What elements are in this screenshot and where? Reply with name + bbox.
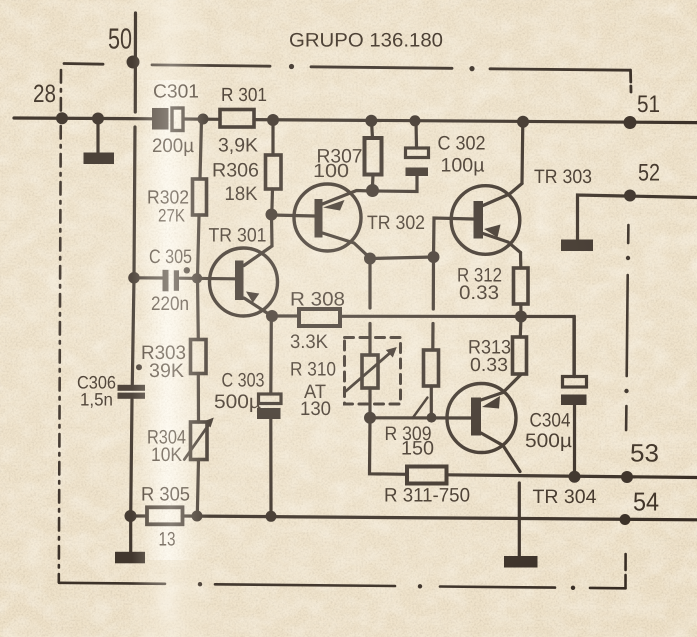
node junction rail x371 [365, 115, 377, 127]
capacitor C306 (in series on 50-line) [118, 385, 146, 399]
node junction (271,516) C303 bottom [266, 511, 277, 522]
capacitor C305 (plates) [163, 270, 180, 292]
thermistor R310 column (from row258 down, hops row316) [346, 259, 397, 418]
svg-text:C 303: C 303 [222, 370, 265, 392]
dashed box around R310 [345, 338, 401, 405]
svg-text:3.3K: 3.3K [290, 331, 328, 353]
svg-text:100µ: 100µ [441, 155, 485, 177]
capacitor C303 (electrolytic) [257, 321, 281, 516]
svg-text:200µ: 200µ [152, 135, 194, 157]
resistor R308 (box) [299, 309, 340, 326]
transistor TR304 [447, 375, 521, 472]
node: dot where 50-line crosses top border [127, 56, 140, 69]
border: top-right corner stub [629, 70, 632, 92]
svg-text:R 301: R 301 [221, 85, 267, 106]
ground (top-left, below rail) [84, 118, 115, 164]
resistor R311 (box) [407, 467, 447, 484]
resistor R302 (vertical) [193, 119, 207, 278]
node junction (272,316) TR301 emitter / C303 [266, 310, 278, 322]
transistor TR303 [451, 184, 522, 255]
node junction on rail at border x62 [56, 112, 68, 124]
svg-text:100: 100 [313, 161, 349, 182]
svg-text:R306: R306 [212, 160, 259, 182]
node junction (370,417.5) [364, 412, 376, 424]
node junction (372.5,190.5) R307/C302/TR302 emitter [366, 184, 379, 197]
svg-text:13: 13 [159, 529, 176, 551]
resistor R312 (vertical) [514, 253, 529, 317]
resistor R304 (trimmer, vertical with arrow) [184, 374, 214, 516]
node junction on rail x98 (ground tap) [92, 113, 104, 125]
wire 52 with corner and ground [561, 195, 697, 251]
svg-text:220n: 220n [151, 293, 189, 315]
svg-text:GRUPO 136.180: GRUPO 136.180 [289, 30, 443, 52]
border: right dash-dot [624, 225, 630, 588]
wire: TR303 collector riser to rail [520, 122, 524, 184]
svg-text:0.33: 0.33 [470, 355, 508, 376]
svg-text:130: 130 [300, 398, 331, 420]
wire: emitter row y316 (R308 row) [272, 316, 574, 377]
node junction rail x273 [267, 114, 279, 126]
resistor R306 (vertical) [266, 120, 282, 215]
svg-text:C301: C301 [153, 82, 199, 103]
polarity bullet near C305 [184, 267, 190, 273]
node junction (521,316.5) R312 bottom [515, 311, 527, 323]
wire 54 / R305 row [136, 516, 697, 520]
svg-text:51: 51 [637, 91, 660, 118]
svg-text:TR 304: TR 304 [533, 486, 597, 508]
svg-text:R 311-750: R 311-750 [384, 485, 470, 507]
node junction (370,258.5) TR302 collector [364, 253, 376, 265]
svg-text:R 308: R 308 [290, 289, 345, 311]
svg-text:3,9K: 3,9K [218, 135, 258, 157]
node junction (197,278.3) [192, 273, 202, 283]
svg-text:TR 302: TR 302 [367, 212, 425, 234]
border: bottom dash-dot [59, 582, 626, 590]
svg-text:C 305: C 305 [149, 246, 192, 268]
node junction (130.5,516) [125, 510, 137, 522]
pointer line for R309 label [413, 398, 428, 418]
wire: TR304 emitter ground stem [504, 483, 538, 568]
node junction rail x523 [517, 116, 529, 128]
resistor R303 (vertical) [191, 279, 207, 374]
wire: net 28/51 main horizontal rail [14, 118, 697, 123]
svg-text:150: 150 [401, 438, 434, 460]
bullet left of 39K [136, 364, 142, 370]
svg-text:50: 50 [108, 24, 132, 56]
svg-text:R 310: R 310 [290, 359, 336, 381]
node dot on 50-line at C305 row [128, 272, 140, 284]
capacitor C301 (plates) [152, 108, 183, 131]
svg-text:500µ: 500µ [525, 430, 572, 452]
svg-text:1,5n: 1,5n [80, 390, 113, 410]
svg-text:C304: C304 [530, 410, 571, 432]
svg-text:C 302: C 302 [438, 133, 486, 155]
node junction (433.5,257) [428, 251, 440, 263]
wire: TR303 base riser and base wire [434, 218, 474, 257]
svg-text:TR 301: TR 301 [209, 225, 267, 247]
node junction wire53 x627 (border) [621, 471, 633, 483]
wire: C305 row y278 [134, 278, 235, 279]
node junction wire54 x625 (border) [620, 514, 631, 525]
wire: row y258 between TR302 coll and TR303 base column [370, 257, 434, 259]
svg-text:18K: 18K [225, 183, 258, 205]
capacitor C302 (electrolytic) [377, 120, 429, 192]
svg-text:0.33: 0.33 [459, 282, 499, 304]
wire 53 row [370, 418, 697, 478]
node junction (431.5,417.5) [427, 413, 437, 423]
resistor R313 (vertical) [513, 317, 527, 375]
border: left dash-dot [59, 70, 61, 582]
resistor R301 (box on rail) [220, 110, 254, 128]
node junction rail x415 (C302 top) [410, 115, 421, 126]
svg-text:500µ: 500µ [214, 391, 261, 413]
wire: TR304 base row y417 [370, 416, 471, 419]
svg-text:54: 54 [633, 487, 659, 517]
node junction wire52 x630 [624, 190, 636, 202]
resistor R307 (vertical) [365, 121, 382, 186]
svg-text:TR 303: TR 303 [534, 166, 592, 188]
capacitor C304 (electrolytic) [561, 317, 587, 478]
resistor R305 (box) [147, 507, 183, 524]
svg-text:10K: 10K [151, 444, 182, 466]
node junction (271.5,214.5): R306/TR302 base/TR301 collector [266, 209, 278, 221]
ground (bottom-left) [115, 516, 145, 563]
node junction wire53 x574.5 [569, 471, 581, 483]
svg-text:R 305: R 305 [141, 484, 190, 506]
svg-text:52: 52 [638, 160, 660, 187]
node junction rail x203 [198, 114, 209, 125]
transistor TR302 [294, 184, 372, 258]
wire: TR302 base wire [272, 215, 315, 216]
svg-text:27K: 27K [158, 206, 185, 226]
svg-text:28: 28 [33, 80, 56, 108]
svg-text:53: 53 [630, 440, 659, 468]
resistor R309 column (hops row316) [424, 257, 439, 418]
border: top dash-dot [64, 64, 630, 72]
wire: node 50 vertical line [131, 13, 136, 516]
transistor TR301 [210, 215, 278, 316]
node junction (197,516) [192, 511, 203, 522]
node junction rail x630 (51 / border) [624, 116, 637, 129]
svg-text:39K: 39K [149, 360, 184, 382]
